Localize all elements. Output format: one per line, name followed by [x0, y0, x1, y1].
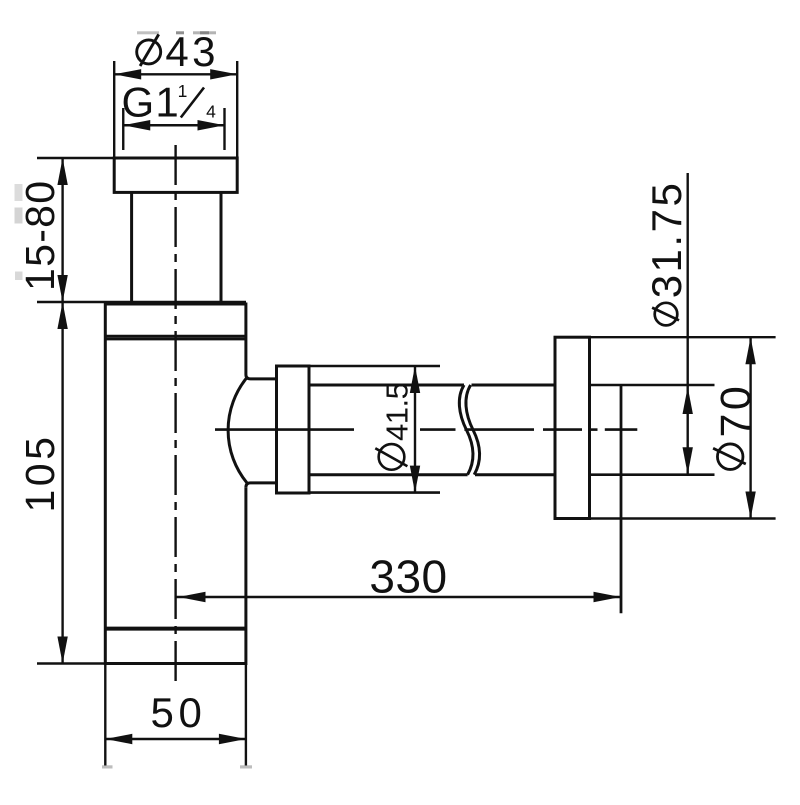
dimension Ø41.5 label (rotated)	[375, 383, 414, 470]
body flange double line	[105, 336, 246, 339]
svg-text:15-80: 15-80	[17, 180, 63, 291]
dimension 15-80 extension line (top)	[37, 157, 237, 159]
svg-text:G: G	[122, 78, 155, 125]
dimension 15-80 dimension line with arrows	[57, 158, 67, 302]
dimension G 1 1/4 extension ticks	[123, 108, 224, 150]
horizontal centerline of outlet pipe	[215, 428, 637, 431]
vertical centerline of trap body	[174, 145, 176, 683]
pipe break symbol	[459, 385, 479, 475]
svg-text:50: 50	[151, 689, 207, 736]
dimension 50 dimension line with arrows	[105, 734, 246, 744]
dimension Ø70 dimension line with arrows	[745, 337, 755, 518]
dimension 50 extension lines	[105, 664, 246, 766]
body bottom cap line	[105, 627, 246, 631]
dimension Ø70 extension lines	[555, 337, 776, 518]
svg-text:1: 1	[178, 81, 188, 101]
top slip nut	[114, 158, 237, 192]
ghost marks left of 15-80 label	[15, 184, 23, 280]
ball joint arc	[228, 378, 247, 483]
outlet pipe right section edges	[472, 385, 555, 475]
dimension 330 dimension line with arrows	[177, 592, 621, 602]
svg-text:4: 4	[206, 102, 216, 122]
trap body outline	[105, 304, 246, 664]
tube end / wall line	[620, 385, 623, 613]
svg-text:43: 43	[165, 28, 219, 75]
svg-text:105: 105	[17, 434, 63, 513]
inlet tailpiece tube	[132, 192, 221, 304]
outlet joint fillet (top)	[246, 375, 277, 379]
outlet compression nut	[277, 366, 310, 493]
outlet joint fillet (bottom)	[246, 483, 277, 487]
dimension Ø31.75 extension lines (pipe edges extended)	[590, 385, 715, 475]
dimension 105 dimension line with arrows	[57, 302, 67, 664]
wall flange	[555, 337, 590, 518]
dimension 105 extension line (bottom)	[37, 662, 246, 664]
dimension 15-80 extension line (bottom) / body top extension	[37, 301, 246, 303]
dimension Ø70 label (rotated)	[712, 383, 760, 470]
dimension Ø41.5 extension lines (nut edges extended)	[277, 366, 441, 493]
svg-text:31.75: 31.75	[643, 181, 690, 299]
dimension G 1 1/4 dimension line with arrows	[123, 120, 224, 130]
svg-text:330: 330	[369, 550, 447, 602]
dimension Ø41.5 dimension line with arrows	[410, 366, 420, 493]
dimension Ø43 label	[137, 28, 219, 75]
dimension Ø31.75 label (rotated)	[643, 181, 690, 326]
dimension Ø31.75 dimension line with arrows	[683, 173, 693, 475]
svg-text:1: 1	[155, 78, 178, 125]
dimension Ø43 dimension line with arrows	[114, 69, 237, 79]
ghost mark above Ø43 label	[137, 31, 216, 34]
dimension G 1 1/4 label	[122, 78, 217, 125]
dimension Ø43 extension lines	[114, 61, 237, 158]
svg-text:41.5: 41.5	[380, 383, 415, 441]
ghost ticks at bottom of 50 extension lines	[102, 765, 252, 768]
svg-text:70: 70	[712, 383, 760, 438]
outlet pipe left section edges	[309, 385, 468, 475]
